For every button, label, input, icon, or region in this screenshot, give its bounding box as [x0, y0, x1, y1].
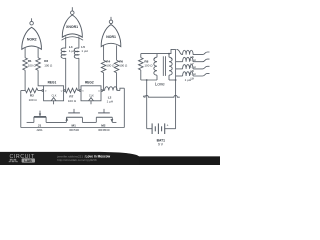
svg-text:NOR1: NOR1 [106, 35, 116, 39]
svg-text:1 µH: 1 µH [81, 49, 87, 53]
svg-text:J201: J201 [36, 128, 43, 132]
wire winding bottom to bus [169, 79, 176, 81]
svg-text:CLK: CLK [89, 94, 94, 97]
svg-text:REG2: REG2 [85, 81, 94, 85]
svg-text:IRF530: IRF530 [69, 128, 79, 132]
gate XNOR1 [62, 7, 84, 40]
svg-text:XNOR1: XNOR1 [66, 25, 78, 29]
svg-text:1 µH: 1 µH [107, 100, 113, 104]
wire top loop R8/transformer [141, 49, 176, 53]
resistor R3 [36, 58, 41, 70]
wire R4 bottom to L2 row [103, 73, 105, 91]
svg-text:100 Ω: 100 Ω [29, 98, 38, 102]
svg-text:+: + [167, 124, 169, 128]
svg-text:100 Ω: 100 Ω [144, 64, 153, 68]
wire NOR1 input legs [103, 45, 105, 60]
wire R8 loop bottom [141, 79, 157, 81]
inductor L8 [176, 65, 210, 69]
wire right bus [175, 49, 177, 128]
resistor R1 [23, 58, 28, 70]
inductor L5 [74, 48, 79, 58]
footer bar [0, 156, 220, 165]
svg-text:Love: Love [155, 81, 165, 86]
node dot winding top [168, 53, 170, 55]
node dot winding bottom [175, 79, 177, 81]
svg-text:9 V: 9 V [158, 143, 164, 147]
resistor R4 [101, 60, 106, 72]
svg-text:100 Ω: 100 Ω [106, 64, 115, 68]
svg-text:IRF9530: IRF9530 [98, 128, 110, 132]
wire J1 to M1 [46, 121, 66, 123]
wire L5 bottom to R7 row [78, 58, 80, 90]
svg-text:LAB: LAB [24, 159, 32, 163]
wire battery left lead [146, 80, 148, 129]
wire XNOR1 input legs [65, 36, 67, 48]
flip-flop REG1 [42, 86, 65, 105]
logo squarewave [9, 159, 18, 161]
inductor L9 [176, 72, 210, 76]
svg-text:http://circuitlab.com/c/py9k58: http://circuitlab.com/c/py9k58 [57, 158, 97, 162]
inductor L6 [177, 49, 210, 54]
wire left vertical [20, 91, 22, 128]
node junction dot left [146, 79, 148, 81]
wire L4 bottom to R7 row [65, 58, 67, 90]
gate NOR2 [22, 18, 42, 49]
wire riser [123, 88, 125, 127]
wire R6 bottom to L2 row [116, 73, 118, 91]
svg-text:CLK: CLK [52, 94, 57, 97]
wire with hops [144, 95, 180, 97]
inductor L2 [103, 87, 120, 91]
gate NOR1 [101, 17, 121, 47]
resistor R2 [21, 88, 42, 93]
transformer Love left winding [154, 54, 157, 80]
transistor M1 [65, 109, 82, 123]
svg-text:100 Ω: 100 Ω [68, 99, 77, 103]
wire bottom bus [21, 127, 125, 129]
inductor L4 [61, 48, 66, 58]
svg-text:NOR2: NOR2 [27, 37, 37, 41]
wire NOR2 input legs [24, 48, 26, 58]
svg-text:100 Ω: 100 Ω [44, 63, 53, 67]
battery BAT1 [147, 123, 176, 134]
resistor R7 [65, 88, 79, 93]
footer left panel [0, 152, 139, 165]
transformer core [162, 56, 164, 76]
wire R3 bottom to REG1 top [38, 70, 44, 86]
wire M1 to M2 [82, 121, 96, 123]
svg-text:1 µH: 1 µH [185, 78, 191, 82]
resistor R6 [114, 60, 119, 72]
wire L2 to riser [120, 88, 124, 90]
transistor J1 [27, 111, 46, 123]
flip-flop REG2 [79, 86, 102, 105]
resistor R8 [139, 54, 144, 80]
inductor L7 [176, 57, 210, 61]
svg-text:100 Ω: 100 Ω [119, 64, 128, 68]
logo LAB box [22, 158, 35, 162]
svg-text:100 Ω: 100 Ω [28, 63, 37, 67]
transformer Love right winding [169, 54, 172, 80]
transistor M2 [96, 109, 116, 123]
wire R1 bottom to R2 row [24, 70, 26, 90]
svg-text:REG1: REG1 [48, 81, 57, 85]
